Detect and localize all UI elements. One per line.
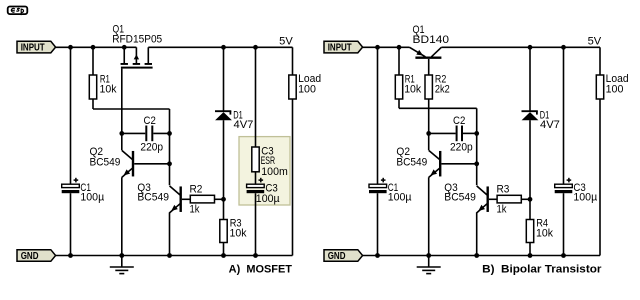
svg-text:10k: 10k <box>100 84 117 96</box>
svg-text:GND: GND <box>328 251 346 262</box>
svg-text:10k: 10k <box>536 227 553 239</box>
svg-text:5V: 5V <box>588 35 602 47</box>
svg-text:R2: R2 <box>190 184 203 196</box>
svg-text:BC549: BC549 <box>137 192 169 204</box>
svg-text:220p: 220p <box>450 142 473 154</box>
svg-text:B) Bipolar Transistor: B) Bipolar Transistor <box>482 263 602 275</box>
svg-text:100µ: 100µ <box>388 191 412 203</box>
svg-text:1k: 1k <box>190 204 200 216</box>
svg-text:100: 100 <box>298 84 316 96</box>
svg-text:100: 100 <box>606 84 624 96</box>
svg-text:100µ: 100µ <box>256 193 280 205</box>
svg-text:4V7: 4V7 <box>234 119 254 131</box>
svg-text:100µ: 100µ <box>573 191 597 203</box>
svg-text:R3: R3 <box>497 184 510 196</box>
svg-text:BC549: BC549 <box>90 157 121 169</box>
svg-text:5V: 5V <box>279 35 293 47</box>
svg-text:BC549: BC549 <box>396 157 427 169</box>
svg-text:A) MOSFET: A) MOSFET <box>229 264 293 276</box>
svg-text:2k2: 2k2 <box>435 83 450 95</box>
svg-text:10k: 10k <box>230 227 247 239</box>
svg-text:10k: 10k <box>404 83 421 95</box>
svg-text:1k: 1k <box>497 204 507 216</box>
svg-text:INPUT: INPUT <box>328 43 352 54</box>
svg-text:INPUT: INPUT <box>21 43 45 54</box>
svg-text:100m: 100m <box>261 166 288 178</box>
svg-text:C2: C2 <box>144 115 156 127</box>
svg-text:C2: C2 <box>453 115 465 127</box>
svg-text:4V7: 4V7 <box>540 119 560 131</box>
svg-text:220p: 220p <box>140 142 163 154</box>
svg-text:BC549: BC549 <box>444 192 476 204</box>
svg-text:BD140: BD140 <box>413 34 450 46</box>
svg-text:RFD15P05: RFD15P05 <box>112 34 162 46</box>
svg-text:GND: GND <box>21 251 39 262</box>
svg-text:100µ: 100µ <box>80 191 104 203</box>
